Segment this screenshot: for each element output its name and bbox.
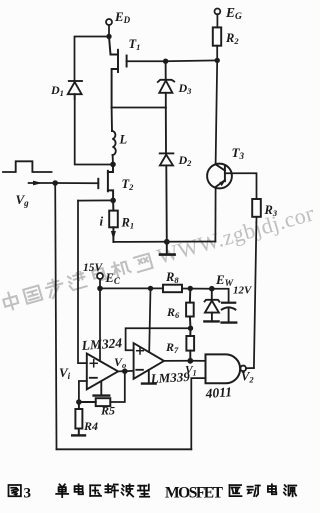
svg-text:Vo: Vo [114,355,126,370]
node EW [209,286,215,292]
LM324 minus sign [90,377,97,379]
LM339 plus sign [137,347,144,354]
wire collector of T3 [216,60,218,164]
transistor T2 (MOSFET) [98,164,113,200]
current arrow i [111,231,116,240]
svg-text:R5: R5 [100,404,115,418]
wire bottom rail [57,448,192,450]
svg-text:R4: R4 [83,419,98,433]
wire V1 to gate input 1 [190,360,205,362]
svg-text:ED: ED [114,9,131,25]
terminal EG [215,9,221,28]
svg-text:L: L [119,133,128,147]
diode D3 [158,61,174,107]
node T2 source [110,198,116,204]
svg-text:Vg: Vg [16,192,30,208]
svg-text:EG: EG [225,5,242,22]
diode D1 [68,81,82,99]
wire ED junction to D1 top [75,37,110,81]
wire emitter-R1 ground rail [113,241,215,243]
svg-text:WWW.zgbjdj.com: WWW.zgbjdj.com [154,198,313,269]
svg-text:T3: T3 [232,145,245,161]
svg-text:D1: D1 [50,83,64,98]
resistor R1 [109,200,118,242]
inductor L [112,108,116,165]
NAND gate 4011 [206,354,241,383]
resistor R6 [186,289,194,329]
wire Vg input with arrow [29,182,56,184]
ground symbol [160,242,175,255]
comparator LM339 [134,343,164,379]
LM324 minus input wire [79,381,87,402]
svg-text:3: 3 [24,486,32,502]
wire EW to capacitor [212,289,229,303]
T3 emitter arrow [219,182,224,187]
svg-text:T1: T1 [129,37,141,52]
wire rail up to gate input 2 [191,378,205,449]
svg-text:D3: D3 [178,81,193,96]
node R6/R7 [188,326,193,331]
caption figure title [9,484,297,501]
node Vo [122,368,128,374]
svg-text:4011: 4011 [204,384,232,401]
svg-text:Vi: Vi [59,365,71,381]
resistor R3 [252,199,261,217]
wire Vg down to bottom rail [55,183,56,449]
wire gate output to V2 riser [246,367,254,369]
pulse waveform symbol [3,161,52,172]
resistor R8 [163,285,182,293]
resistor R4 [72,402,85,435]
node R4/R5 [76,399,82,405]
node LM339 supply tap [148,286,153,291]
svg-text:12V: 12V [233,285,253,297]
node EC [97,286,103,292]
wire T3 base to R3 [225,173,257,199]
svg-text:R6: R6 [166,305,180,320]
wire LM324 output [118,370,125,372]
terminal ED [106,19,112,35]
wire Vi sense line [78,201,87,364]
wire Vg to T2 gate [55,182,98,184]
zener diode DW [204,289,219,322]
LM324 plus sign [90,360,97,367]
svg-text:LM324: LM324 [80,335,123,353]
svg-text:R2: R2 [225,31,239,46]
wire R2 to collector node [216,46,218,61]
NAND bubble [240,366,246,372]
wire LM324 V+ [99,288,101,361]
wire EC rail left segment [100,287,163,289]
watermark [0,198,320,313]
transistor T3 [207,164,232,189]
resistor R5 [79,398,110,406]
wire T2 source to Vi line [78,199,113,201]
svg-text:T2: T2 [122,177,135,192]
LM339 minus sign [136,369,143,371]
svg-text:MOSFET: MOSFET [165,485,224,502]
transistor T1 (MOSFET) [109,37,127,108]
svg-text:V1: V1 [185,365,197,378]
LM339 ground pin [142,370,156,384]
svg-text:R7: R7 [165,340,179,355]
svg-text:EC: EC [105,271,121,286]
wire R8 to EW node [182,288,212,290]
node R6 top [188,286,193,291]
node ground junction [164,239,170,245]
wire R3 to V2 [254,217,257,368]
wire T1 gate to D3 node [127,60,166,62]
svg-text:V2: V2 [241,370,254,385]
LM324 ground pin [94,382,110,396]
wire T3 emitter down [214,188,216,242]
svg-text:i: i [100,214,104,229]
diode D2 [160,108,174,242]
svg-text:D2: D2 [178,153,193,168]
svg-text:EW: EW [215,272,234,289]
node junction at ED [106,34,111,39]
op-amp LM324 [87,354,118,390]
wire T1 source / L top / D3 node [112,107,166,109]
wire divider to LM339 + input [126,328,191,350]
capacitor CW [222,303,237,323]
node R2 bottom [215,58,220,63]
wire LM339 V+ [149,288,150,352]
wire Vo feedback down [110,371,125,402]
resistor R7 [186,328,194,361]
node V1 [187,358,193,364]
terminal EC [97,273,103,288]
node Vg [52,180,58,186]
svg-text:R1: R1 [121,216,135,231]
svg-text:R8: R8 [165,270,179,285]
node L bottom / D1 / T2 drain [110,162,116,168]
svg-text:R3: R3 [264,203,278,218]
wire LM339 output to V1 [164,360,190,362]
resistor R2 [213,27,221,45]
node T1 gate / D3 [163,59,168,64]
wire Vo to LM339 minus input [125,370,134,372]
wire D1 to L-bottom junction [75,94,111,164]
wire D3 node to R2 node [166,59,218,62]
